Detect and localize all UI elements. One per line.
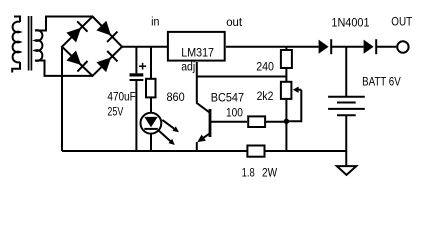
svg-text:240: 240 bbox=[256, 60, 274, 74]
svg-text:25V: 25V bbox=[107, 104, 123, 118]
svg-text:adj: adj bbox=[181, 59, 195, 73]
svg-text:in: in bbox=[151, 15, 159, 29]
svg-text:1.8: 1.8 bbox=[242, 166, 255, 180]
svg-text:1N4001: 1N4001 bbox=[331, 15, 369, 29]
svg-text:2k2: 2k2 bbox=[257, 89, 274, 103]
svg-text:BATT 6V: BATT 6V bbox=[362, 75, 401, 89]
svg-text:out: out bbox=[226, 15, 242, 29]
svg-text:100: 100 bbox=[226, 106, 243, 120]
svg-text:470uF: 470uF bbox=[107, 89, 136, 103]
svg-text:2W: 2W bbox=[262, 166, 277, 180]
svg-text:BC547: BC547 bbox=[211, 91, 244, 105]
svg-text:860: 860 bbox=[167, 90, 185, 104]
svg-text:LM317: LM317 bbox=[181, 45, 214, 59]
svg-text:OUT: OUT bbox=[391, 15, 412, 29]
